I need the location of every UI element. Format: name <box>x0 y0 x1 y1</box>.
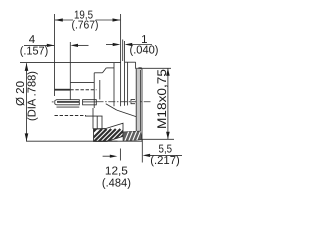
dim 1 right arrow pointing left, tail under text 1 <box>125 43 133 46</box>
contact collar piece <box>83 100 97 105</box>
housing bell chamfer <box>103 68 107 73</box>
thread top leader to M18 dim <box>142 67 171 69</box>
center contact barrel <box>57 100 80 105</box>
flange rear face <box>113 63 115 107</box>
dim 12,5 line + arrow tip at flange front plane <box>103 155 111 157</box>
M18 top arrow <box>166 68 170 75</box>
M18 vertical dimension line <box>167 68 169 139</box>
housing top edge front section <box>106 67 114 69</box>
insert bottom edge <box>85 115 103 117</box>
M18 bottom arrow <box>166 132 170 140</box>
teeth white chevrons <box>125 131 141 141</box>
housing internal edge <box>99 80 101 100</box>
front bottom corner <box>141 139 143 141</box>
centerline dash-dot <box>97 101 151 103</box>
upper contact lug (thick) <box>55 89 71 91</box>
nut external cone silhouette <box>117 110 136 117</box>
dia20 vertical dimension line <box>26 63 28 141</box>
housing bell rear face <box>93 73 95 108</box>
nut top edge <box>125 61 136 63</box>
knurl band outline <box>94 123 124 141</box>
center contact tip chamfer <box>55 100 57 105</box>
hidden contact hole dashes upper <box>70 89 96 91</box>
dim 1 right bar (nut rear plane) <box>124 41 126 62</box>
dim 12,5 right bar <box>119 149 121 161</box>
dim 4 second arrow pointing left tip at x70.3 <box>70 44 78 47</box>
dim 1 bar stub x122.7 <box>122 40 124 62</box>
thread top edge with thick start <box>136 67 142 69</box>
centerline tick left <box>52 101 54 103</box>
nut rear face <box>124 62 126 106</box>
nut front face <box>135 62 137 69</box>
insert top edge <box>70 81 94 83</box>
thread band fill <box>136 69 140 132</box>
bottom outline <box>99 140 143 142</box>
extension line x70.3 (insert face) <box>69 42 71 82</box>
extension line left (contact tip plane) <box>54 14 56 96</box>
svg-text:(.767): (.767) <box>72 19 99 31</box>
svg-text:(.040): (.040) <box>130 45 159 57</box>
svg-text:(.157): (.157) <box>20 45 49 57</box>
svg-text:4: 4 <box>29 34 36 46</box>
lower hidden contact dashes <box>55 115 87 117</box>
svg-text:M18x0,75: M18x0,75 <box>155 69 169 129</box>
nut external rear bevel (bottom half) <box>106 104 117 110</box>
dim 19,5 left arrow <box>55 18 63 21</box>
dia20 top extension line merged with flange top edge <box>20 62 121 64</box>
svg-text:(.217): (.217) <box>150 155 180 167</box>
rear step vertical x93 <box>92 108 94 129</box>
svg-text:(.484): (.484) <box>102 178 131 190</box>
thread band front edge / front face <box>141 69 143 140</box>
M18 bottom extension line <box>142 138 174 140</box>
housing bell top edge <box>94 72 102 74</box>
knurl hatch <box>84 126 134 143</box>
step verticals under bell <box>97 116 102 129</box>
dia20 down arrow <box>25 133 29 141</box>
extension line right (flange front plane), continues into part <box>120 14 122 106</box>
dia20 bottom extension line <box>26 140 118 142</box>
nut internal edge <box>127 62 129 105</box>
insert front face <box>69 82 71 99</box>
front center socket box <box>131 100 135 104</box>
thread band root line <box>139 70 141 131</box>
step bottom edge <box>93 128 106 130</box>
thread band rear edge <box>135 69 137 132</box>
dim 19,5 right arrow <box>113 18 121 21</box>
dia20 up arrow <box>25 63 29 71</box>
dim 1 left arrow (tail then head at flange front) <box>106 44 113 46</box>
barrel lower tab line <box>57 106 80 108</box>
dim 5,5 bar (front face extension) <box>141 140 143 163</box>
svg-text:12,5: 12,5 <box>105 166 128 178</box>
dim 19,5 dimension line at y20 <box>55 19 120 21</box>
dim 4 dimension line tail left <box>24 44 54 46</box>
dim 5,5 tail line <box>150 154 183 156</box>
thread teeth block <box>123 131 142 141</box>
svg-text:5,5: 5,5 <box>159 144 173 156</box>
dim 4 arrow pointing right tip at x54.5 <box>47 44 55 47</box>
svg-text:(DIA .788): (DIA .788) <box>26 71 38 121</box>
svg-text:Ø 20: Ø 20 <box>15 81 27 106</box>
dim 5,5 arrow pointing left <box>143 154 151 157</box>
barrel slot lines <box>57 101 79 104</box>
collar midline <box>83 101 97 103</box>
